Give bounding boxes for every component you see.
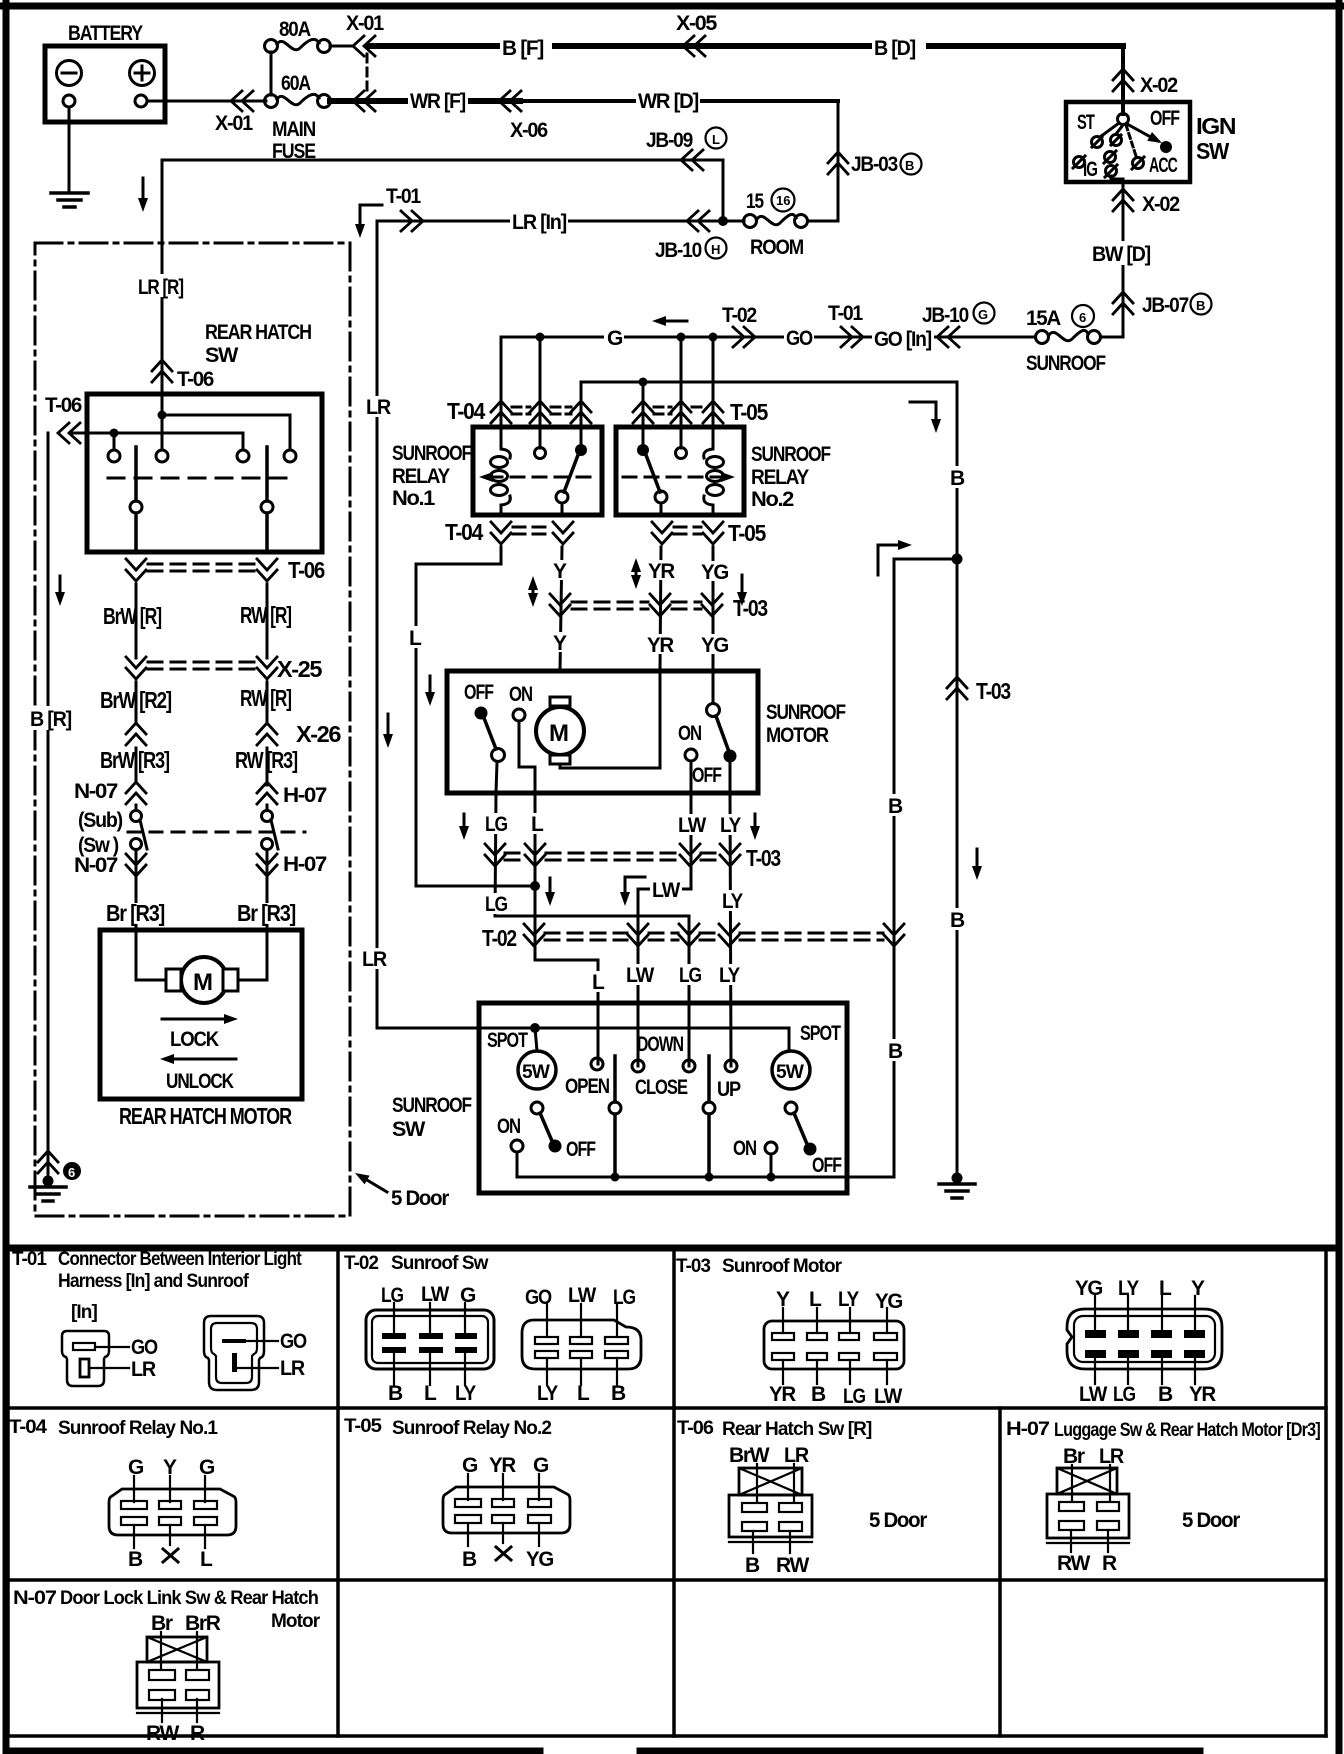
- svg-text:LW: LW: [1079, 1383, 1107, 1406]
- svg-text:X-01: X-01: [215, 112, 254, 135]
- motor internal wire to YR: [560, 671, 660, 768]
- fuse 60A (main fuse): [265, 95, 278, 108]
- svg-text:ACC: ACC: [1149, 154, 1178, 177]
- svg-text:T-04: T-04: [9, 1417, 47, 1438]
- switch dashed line: [108, 477, 296, 480]
- connector N-07 (top): [126, 782, 146, 804]
- label LY (lower): [717, 964, 745, 985]
- sunroof motor box: [447, 671, 758, 793]
- connector T-06 (left chevron): [58, 423, 80, 443]
- wire G to relay2 coil: [712, 337, 715, 427]
- svg-text:G: G: [462, 1454, 478, 1477]
- wire YG relay2 coil to motor: [712, 547, 715, 703]
- wire B[F]/B[D] thick top line: [368, 43, 1123, 49]
- wire WR[F]/WR[D]: [330, 98, 520, 104]
- svg-text:LY: LY: [838, 1288, 859, 1311]
- svg-text:5W: 5W: [776, 1062, 804, 1083]
- svg-text:Y: Y: [776, 1288, 790, 1311]
- svg-text:LR: LR: [366, 396, 391, 419]
- svg-text:LG: LG: [843, 1385, 866, 1408]
- node B branch: [952, 554, 963, 565]
- arrow down (LR line): [387, 714, 390, 740]
- svg-text:MAIN: MAIN: [272, 118, 315, 141]
- svg-text:No.2: No.2: [751, 488, 794, 511]
- wire LR into switch: [161, 415, 164, 450]
- svg-text:T-01: T-01: [386, 185, 421, 208]
- connector T-04 (bottom row): [491, 522, 511, 544]
- rear hatch motor box: [100, 930, 302, 1099]
- wire relay NC bus to B: [581, 382, 957, 559]
- svg-text:LG: LG: [613, 1286, 636, 1309]
- svg-text:(Sub): (Sub): [78, 809, 122, 832]
- svg-text:Luggage Sw & Rear Hatch Motor: Luggage Sw & Rear Hatch Motor [Dr3]: [1054, 1420, 1320, 1441]
- T-01 connector (sunroof side): [204, 1316, 264, 1390]
- motor M2: [181, 957, 227, 1003]
- svg-text:5 Door: 5 Door: [391, 1187, 449, 1210]
- moving contact left: [134, 447, 138, 501]
- label GO [In]: [872, 326, 934, 349]
- svg-text:REAR HATCH MOTOR: REAR HATCH MOTOR: [119, 1103, 292, 1129]
- svg-text:LG: LG: [485, 813, 508, 836]
- svg-text:LR: LR: [784, 1444, 809, 1467]
- svg-text:T-03: T-03: [976, 678, 1010, 704]
- svg-text:YG: YG: [1075, 1277, 1103, 1300]
- label YR (upper): [646, 560, 678, 580]
- svg-text:JB-10: JB-10: [922, 304, 969, 327]
- fuse SUNROOF 15A: [1088, 331, 1101, 344]
- connector JB-03 B: [828, 152, 848, 174]
- svg-text:ON: ON: [678, 722, 701, 745]
- svg-text:X-06: X-06: [510, 119, 548, 142]
- svg-text:REAR HATCH: REAR HATCH: [205, 321, 311, 344]
- wire B (ground drop x957): [956, 559, 959, 1178]
- wire JB-09 horizontal to LR[R]: [162, 159, 723, 162]
- svg-text:L: L: [409, 627, 422, 650]
- connector JB-09 L: [681, 150, 703, 170]
- svg-text:UNLOCK: UNLOCK: [166, 1070, 234, 1093]
- svg-text:LY: LY: [1118, 1277, 1139, 1300]
- svg-text:YR: YR: [769, 1383, 796, 1406]
- label LR [In]: [510, 209, 568, 232]
- svg-text:YG: YG: [526, 1548, 554, 1571]
- svg-text:G: G: [533, 1454, 549, 1477]
- connector T-02 (G): [733, 327, 755, 347]
- svg-text:B: B: [811, 1383, 826, 1406]
- connector T-01 (GO): [841, 327, 863, 347]
- svg-text:T-06: T-06: [45, 394, 82, 417]
- label B (x957 wire): [946, 908, 967, 930]
- svg-text:B: B: [388, 1382, 403, 1405]
- svg-text:B: B: [611, 1382, 626, 1405]
- battery B1: [45, 46, 165, 122]
- svg-text:B [R]: B [R]: [30, 708, 71, 731]
- label L (upper): [527, 813, 545, 834]
- svg-text:No.1: No.1: [392, 487, 436, 510]
- svg-text:ON: ON: [733, 1137, 756, 1160]
- wire LR[R] down to rear hatch sw: [161, 160, 164, 415]
- cell T-01: [12, 1249, 307, 1390]
- svg-text:LW: LW: [626, 964, 654, 987]
- svg-text:LG: LG: [485, 893, 508, 916]
- table top border: [6, 1245, 1339, 1252]
- svg-text:OFF: OFF: [1150, 107, 1180, 130]
- svg-text:B [F]: B [F]: [502, 37, 543, 60]
- svg-text:5 Door: 5 Door: [869, 1509, 927, 1532]
- svg-text:RW: RW: [776, 1554, 809, 1577]
- pointer arrow at T-01: [360, 205, 382, 230]
- wire WR[D] corner down to JB-03: [837, 101, 840, 221]
- relay1 contacts: [535, 448, 546, 459]
- wire battery positive to main fuse: [147, 100, 266, 103]
- svg-text:LY: LY: [455, 1382, 476, 1405]
- motor M1: [536, 707, 584, 755]
- svg-text:B: B: [905, 158, 914, 173]
- svg-text:JB-07: JB-07: [1142, 294, 1189, 317]
- connector X-02 (upper): [1113, 69, 1133, 91]
- label LG (mid): [483, 893, 513, 914]
- wire RW[R3]: [266, 748, 269, 785]
- svg-text:X-02: X-02: [1140, 74, 1178, 97]
- label L (lower): [588, 971, 606, 992]
- wire LY below motor: [730, 793, 731, 1066]
- svg-text:LG: LG: [679, 964, 702, 987]
- svg-text:LG: LG: [1113, 1383, 1136, 1406]
- svg-text:YR: YR: [1189, 1383, 1216, 1406]
- IGN pivot and contacts: [1121, 102, 1125, 114]
- svg-text:X-25: X-25: [277, 656, 323, 682]
- connector JB-10 G: [937, 327, 959, 347]
- label YG (upper): [699, 561, 731, 581]
- svg-text:H-07: H-07: [283, 853, 327, 876]
- svg-text:B: B: [950, 909, 965, 932]
- svg-text:G: G: [607, 327, 623, 350]
- label B (x894 wire upper): [884, 794, 905, 816]
- connector T-02 (row): [524, 924, 544, 946]
- arrow down (left of motor): [429, 676, 432, 698]
- connector X-01 (battery side): [231, 91, 253, 111]
- wire T-06 into switch: [71, 432, 243, 435]
- svg-text:X-01: X-01: [346, 12, 385, 35]
- connector X-05: [683, 36, 705, 56]
- svg-text:BrW [R2]: BrW [R2]: [100, 687, 172, 713]
- svg-text:SUNROOF: SUNROOF: [392, 442, 472, 465]
- T-02 harness-side connector: [522, 1320, 641, 1369]
- svg-text:L: L: [424, 1382, 437, 1405]
- T-03 motor-side connector: [764, 1321, 904, 1369]
- connector T-03 (motor lower row): [485, 844, 505, 866]
- connector chevron (B[R] ground): [38, 1151, 58, 1173]
- svg-text:YG: YG: [875, 1290, 903, 1313]
- svg-text:B: B: [950, 467, 965, 490]
- svg-text:YR: YR: [647, 634, 674, 657]
- wire L from relay1 coil: [416, 547, 530, 886]
- wire LR branch to contact 4: [162, 415, 290, 449]
- svg-text:Br: Br: [1063, 1445, 1085, 1468]
- wire G to relay2 NO contact: [680, 337, 683, 448]
- wire B[R] from T-06 down left side: [47, 433, 50, 1181]
- svg-text:R: R: [1102, 1552, 1117, 1575]
- cell T-04: [9, 1417, 236, 1571]
- svg-text:5 Door: 5 Door: [1182, 1509, 1240, 1532]
- svg-text:YR: YR: [648, 560, 675, 583]
- right spot switch: [794, 1113, 807, 1144]
- relay2 contacts: [676, 448, 687, 459]
- label WR [F]: [408, 89, 468, 111]
- wire YR relay2 to motor: [660, 547, 661, 671]
- label YG (lower): [699, 634, 731, 654]
- sub switch right: [266, 805, 269, 810]
- svg-text:OFF: OFF: [812, 1154, 842, 1177]
- label LW (lower): [624, 964, 656, 985]
- updown arrow (Y): [532, 583, 535, 600]
- node G bus / relay2 coil: [709, 333, 718, 342]
- svg-text:IGN: IGN: [1196, 113, 1236, 139]
- wire LR [In]: [377, 220, 723, 223]
- svg-text:L: L: [592, 971, 605, 994]
- connector JB-10 H: [687, 211, 709, 231]
- svg-text:OFF: OFF: [692, 764, 722, 787]
- svg-text:80A: 80A: [279, 18, 311, 41]
- svg-text:LR [In]: LR [In]: [512, 211, 566, 234]
- svg-text:L: L: [200, 1548, 213, 1571]
- wire LR down from T-01: [377, 221, 535, 1028]
- unlock arrow: [170, 1058, 236, 1061]
- svg-text:WR [F]: WR [F]: [410, 90, 465, 113]
- svg-text:T-05: T-05: [344, 1416, 382, 1437]
- svg-text:YG: YG: [701, 634, 729, 657]
- svg-text:H: H: [711, 242, 720, 257]
- connector JB-07 B: [1113, 292, 1133, 314]
- label B (right vertical): [946, 466, 968, 488]
- cell H-07: [1006, 1419, 1320, 1575]
- motor right switch: [707, 704, 720, 717]
- wire relay2 NC contact: [642, 382, 645, 444]
- svg-text:JB-09: JB-09: [646, 129, 693, 152]
- svg-text:16: 16: [776, 193, 790, 208]
- connector T-04 (top row): [491, 401, 511, 423]
- svg-text:RW: RW: [1057, 1552, 1090, 1575]
- arrow to 5 door box: [362, 1177, 387, 1192]
- connector X-25: [126, 657, 146, 679]
- wire BrW[R3]: [135, 748, 138, 783]
- connector H-07 (bottom): [257, 854, 277, 876]
- wire Br[R3] right: [266, 879, 269, 980]
- svg-text:L: L: [809, 1288, 822, 1311]
- svg-text:LR: LR: [280, 1357, 305, 1380]
- svg-text:L: L: [577, 1382, 590, 1405]
- wire LW below motor: [638, 793, 691, 1066]
- svg-text:GO: GO: [280, 1330, 307, 1353]
- moving contact (open/close): [613, 1056, 617, 1102]
- svg-text:B: B: [888, 1040, 903, 1063]
- svg-text:ON: ON: [509, 683, 532, 706]
- wire BrW[R2]: [135, 682, 138, 724]
- updown arrow (YR): [635, 565, 638, 582]
- wire to motor M2 right brush: [234, 930, 267, 980]
- svg-text:LR: LR: [1099, 1445, 1124, 1468]
- bulb 5W (right): [772, 1051, 810, 1089]
- svg-text:B: B: [745, 1554, 760, 1577]
- svg-text:GO [In]: GO [In]: [874, 328, 931, 351]
- connector T-01 (LR): [401, 211, 423, 231]
- svg-text:T-02: T-02: [482, 925, 516, 951]
- wire room fuse to node: [723, 220, 744, 223]
- label LY (upper): [718, 814, 746, 835]
- svg-text:OPEN: OPEN: [565, 1075, 609, 1098]
- label LR [R]: [136, 274, 188, 297]
- node G bus / relay1 NO: [536, 333, 545, 342]
- svg-text:6: 6: [1079, 310, 1086, 325]
- label L (relay wire): [405, 626, 426, 648]
- svg-text:BrW: BrW: [729, 1444, 770, 1467]
- svg-text:5W: 5W: [522, 1062, 550, 1083]
- svg-text:60A: 60A: [281, 72, 311, 95]
- arrow down (right of LY): [754, 814, 757, 832]
- svg-text:T-05: T-05: [730, 399, 768, 425]
- svg-text:X-26: X-26: [296, 721, 341, 747]
- svg-text:T-06: T-06: [177, 368, 214, 391]
- label Y (upper): [550, 560, 570, 580]
- wire LG below motor: [495, 793, 689, 1066]
- svg-text:T-02: T-02: [344, 1253, 378, 1274]
- svg-text:Motor: Motor: [271, 1611, 321, 1632]
- connector T-05 (bottom row): [652, 522, 672, 544]
- connector T-05 (top row): [633, 401, 653, 423]
- wire G to relay1 NO contact: [539, 337, 542, 448]
- node L junction: [530, 881, 540, 891]
- label LR (lower): [360, 948, 388, 969]
- svg-text:G: G: [128, 1456, 144, 1479]
- svg-text:OFF: OFF: [464, 681, 494, 704]
- table grid lines: [6, 1248, 10, 1736]
- svg-text:LW: LW: [874, 1385, 902, 1408]
- svg-text:Sunroof Motor: Sunroof Motor: [722, 1256, 843, 1277]
- pointer arrow (LW): [625, 877, 645, 898]
- svg-text:RELAY: RELAY: [392, 465, 450, 488]
- label Y (lower): [550, 632, 570, 652]
- svg-text:DOWN: DOWN: [637, 1033, 683, 1056]
- connector H-07 (top): [257, 782, 277, 804]
- rear hatch switch box: [87, 394, 322, 552]
- switch contacts: [108, 450, 120, 462]
- svg-text:15A: 15A: [1026, 307, 1061, 330]
- wire to room fuse: [808, 220, 838, 223]
- svg-text:GO: GO: [131, 1336, 158, 1359]
- wire Br[R3] left: [135, 879, 138, 980]
- svg-text:T-01: T-01: [12, 1249, 47, 1270]
- label LG (upper): [483, 813, 513, 834]
- sunroof relay No.1 box: [473, 427, 602, 515]
- svg-text:RW: RW: [146, 1722, 179, 1745]
- svg-text:LR [R]: LR [R]: [138, 276, 183, 299]
- svg-text:L: L: [712, 132, 720, 147]
- svg-text:H-07: H-07: [283, 784, 327, 807]
- ground (sunroof B): [952, 1173, 963, 1184]
- svg-text:Door Lock Link Sw & Rear Hatch: Door Lock Link Sw & Rear Hatch: [60, 1588, 318, 1609]
- fuse ROOM 15A: [795, 215, 808, 228]
- moving contact right: [265, 447, 269, 501]
- svg-text:T-03: T-03: [733, 595, 767, 621]
- svg-text:LR: LR: [131, 1358, 156, 1381]
- node G bus / relay2 NO: [677, 333, 686, 342]
- svg-text:YG: YG: [701, 561, 729, 584]
- wire 80A to X-01: [330, 45, 352, 48]
- relay1 dashed actuator line: [489, 476, 597, 479]
- label G: [604, 326, 624, 348]
- svg-text:YR: YR: [489, 1454, 516, 1477]
- svg-text:SUNROOF: SUNROOF: [766, 701, 846, 724]
- label LG (lower): [677, 964, 707, 985]
- ignition switch box: [1066, 102, 1190, 182]
- svg-text:B: B: [1196, 298, 1205, 313]
- label B [R]: [28, 706, 74, 730]
- label LW (on jog): [650, 879, 682, 900]
- lock arrow: [162, 1018, 228, 1021]
- svg-text:6: 6: [68, 1165, 75, 1180]
- svg-text:Connector Between Interior Lig: Connector Between Interior Light: [58, 1249, 302, 1270]
- svg-text:R: R: [190, 1722, 205, 1745]
- wire L below motor: [535, 793, 598, 1064]
- svg-text:Sunroof Sw: Sunroof Sw: [391, 1253, 489, 1274]
- wire between fuse legs: [270, 52, 273, 95]
- svg-text:T-04: T-04: [447, 398, 485, 424]
- svg-text:[In]: [In]: [71, 1302, 98, 1323]
- svg-text:RW [R]: RW [R]: [240, 685, 292, 711]
- node right ON to bus: [767, 1173, 776, 1182]
- svg-text:Y: Y: [163, 1456, 177, 1479]
- svg-text:RW [R3]: RW [R3]: [235, 747, 298, 773]
- bulb 5W (left): [535, 1028, 537, 1051]
- wire B[D] down to IGN SW: [1121, 46, 1125, 102]
- connector T-06 (bottom row): [126, 559, 146, 581]
- label LW (upper): [676, 814, 708, 835]
- svg-text:SW: SW: [205, 344, 239, 367]
- arrow down (near battery): [142, 178, 145, 204]
- svg-text:MOTOR: MOTOR: [766, 724, 829, 747]
- svg-text:BW [D]: BW [D]: [1092, 243, 1150, 266]
- wire G bus: [501, 336, 1035, 339]
- label Br [R3] right: [235, 903, 297, 924]
- wire B (to sunroof sw bus): [894, 559, 957, 1177]
- T-01 connector (harness side): [62, 1331, 109, 1386]
- label B (x894 wire): [884, 1039, 905, 1061]
- svg-text:LW: LW: [568, 1284, 596, 1307]
- svg-text:B: B: [1158, 1383, 1173, 1406]
- node NC bus / relay2: [639, 378, 648, 387]
- svg-text:M: M: [549, 720, 568, 747]
- label B [F]: [500, 34, 552, 58]
- svg-text:B: B: [888, 795, 903, 818]
- svg-text:Y: Y: [1191, 1277, 1205, 1300]
- svg-text:B: B: [462, 1548, 477, 1571]
- sunroof relay No.2 box: [616, 427, 744, 515]
- svg-text:N-07: N-07: [74, 780, 118, 803]
- svg-text:T-06: T-06: [677, 1418, 713, 1439]
- svg-text:Y: Y: [553, 560, 567, 583]
- svg-text:Br [R3]: Br [R3]: [237, 900, 296, 926]
- svg-text:N-07: N-07: [13, 1588, 56, 1609]
- sub switch link dashed: [128, 831, 305, 834]
- svg-text:LW: LW: [678, 814, 706, 837]
- svg-text:Rear Hatch Sw [R]: Rear Hatch Sw [R]: [722, 1419, 872, 1440]
- svg-text:LW: LW: [421, 1283, 449, 1306]
- connector T-03 (relay-motor row): [550, 594, 570, 616]
- svg-text:GO: GO: [786, 327, 813, 350]
- arrow down (YG): [741, 575, 744, 598]
- wire battery negative to ground: [68, 107, 71, 192]
- svg-text:T-01: T-01: [828, 302, 863, 325]
- svg-text:N-07: N-07: [74, 854, 118, 877]
